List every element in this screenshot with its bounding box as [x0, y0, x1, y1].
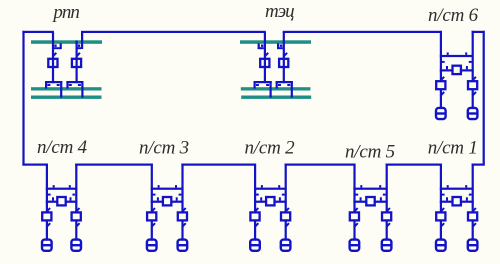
wire п/ст 5 right leg lower	[386, 220, 388, 240]
node substation п/ст 1	[0, 0, 1, 1]
п/ст 5 bridge lower tick right	[380, 197, 382, 200]
ТЭЦ feeder-1 fork right drop to bus 2	[270, 81, 272, 98]
п/ст 1 left leg disconnector blade lower	[440, 223, 444, 227]
п/ст 3 left feeder circuit breaker	[147, 212, 156, 220]
busbar РПП LV bus 2	[31, 96, 102, 99]
РПП feeder-1 fork bar	[45, 81, 62, 83]
wire п/ст 2 bridge lower tie right	[274, 201, 286, 203]
п/ст 6 right leg disconnector blade lower	[472, 92, 476, 96]
п/ст 4 left feeder circuit breaker	[42, 212, 51, 220]
wire ring bottom segment E (п/ст 5 to п/ст 1)	[386, 164, 442, 166]
п/ст 5 bus-tie circuit breaker	[366, 197, 374, 205]
wire п/ст 5 right leg upper	[386, 164, 388, 213]
wire ТЭЦ feeder-1 feeder column	[264, 32, 266, 83]
wire ring top segment C (ТЭЦ feeder 2 to п/ст 6)	[283, 31, 442, 33]
п/ст 3 left leg disconnector blade upper	[151, 208, 155, 212]
п/ст 3 bridge lower tick right	[176, 197, 178, 200]
svg-text:п/ст 5: п/ст 5	[345, 142, 395, 163]
п/ст 4 left leg disconnector blade upper	[46, 208, 50, 212]
п/ст 2 right leg disconnector blade upper	[285, 208, 289, 212]
wire п/ст 4 bridge upper tie	[46, 188, 77, 190]
svg-text:п/ст 3: п/ст 3	[139, 138, 189, 159]
svg-text:рпп: рпп	[51, 2, 79, 23]
node substation п/ст 5	[0, 0, 1, 1]
wire п/ст 3 left leg lower	[151, 220, 153, 240]
ТЭЦ feeder-1 fork bar	[254, 81, 272, 83]
РПП feeder-2 disconnector link	[77, 47, 82, 49]
wire п/ст 3 right leg upper	[181, 164, 183, 213]
РПП feeder-1 bus-2 disconnector tick	[57, 84, 60, 86]
wire п/ст 5 left leg upper	[353, 164, 355, 213]
transformer п/ст 2 T2	[281, 240, 291, 251]
п/ст 5 right feeder circuit breaker	[382, 212, 391, 220]
wire п/ст 2 right leg upper	[285, 164, 287, 213]
node substation п/ст 4	[0, 0, 1, 1]
п/ст 2 left leg disconnector blade lower	[255, 223, 259, 227]
п/ст 3 bus-tie circuit breaker	[163, 197, 171, 205]
ТЭЦ feeder-2 circuit breaker	[279, 59, 288, 67]
п/ст 6 right leg disconnector nub	[469, 61, 472, 63]
wire ring top segment D (п/ст 6 right leg to right edge)	[472, 31, 485, 33]
wire п/ст 4 left leg lower	[46, 220, 48, 240]
п/ст 4 right leg disconnector nub	[72, 194, 75, 196]
wire п/ст 6 bridge lower tie right	[461, 69, 474, 71]
п/ст 5 right leg disconnector blade upper	[386, 208, 390, 212]
busbar РПП LV bus 1	[31, 87, 102, 90]
РПП feeder-1 disconnector link	[54, 47, 62, 49]
РПП feeder-2 fork bar	[66, 81, 83, 83]
wire п/ст 1 right leg upper	[472, 164, 474, 213]
РПП feeder-2 fork right drop to bus 2	[81, 81, 83, 98]
node substation п/ст 2	[0, 0, 1, 1]
wire ring bottom segment D (п/ст 2 to п/ст 5)	[285, 164, 356, 166]
wire п/ст 4 left leg upper	[46, 164, 48, 213]
wire п/ст 1 bridge lower tie left	[440, 201, 453, 203]
wire ring top segment A (left edge to РПП feeder 1)	[22, 31, 54, 33]
п/ст 1 right feeder circuit breaker	[468, 212, 477, 220]
п/ст 3 bridge upper tick right	[175, 185, 177, 188]
wire п/ст 2 bridge lower tie left	[254, 201, 266, 203]
ТЭЦ feeder-1 disconnector blade dot	[261, 45, 263, 47]
node substation п/ст 6	[0, 0, 1, 1]
п/ст 1 left leg disconnector nub	[442, 194, 445, 196]
ТЭЦ feeder-1 busbar tap	[258, 43, 260, 49]
п/ст 2 left feeder circuit breaker	[250, 212, 259, 220]
п/ст 1 left leg disconnector blade upper	[440, 208, 444, 212]
ТЭЦ feeder-2 busbar tap	[277, 43, 279, 49]
п/ст 5 left leg disconnector blade upper	[354, 208, 358, 212]
wire п/ст 2 bridge upper tie	[254, 188, 287, 190]
ТЭЦ feeder-1 fork left drop to bus 1	[254, 81, 256, 89]
wire п/ст 2 left leg lower	[254, 220, 256, 240]
п/ст 3 right leg disconnector blade lower	[182, 223, 186, 227]
svg-text:п/ст 1: п/ст 1	[428, 138, 478, 159]
п/ст 6 right leg disconnector blade upper	[472, 77, 476, 81]
wire ring bottom segment F (п/ст 1 to right edge)	[472, 164, 485, 166]
wire п/ст 2 left leg upper	[254, 164, 256, 213]
п/ст 5 left leg disconnector nub	[355, 194, 358, 196]
п/ст 6 left leg disconnector blade upper	[440, 77, 444, 81]
wire п/ст 4 right leg lower	[75, 220, 77, 240]
wire п/ст 6 bridge lower tie left	[440, 69, 453, 71]
п/ст 4 right leg disconnector blade upper	[76, 208, 80, 212]
wire п/ст 4 bridge lower tie right	[66, 201, 78, 203]
node substation п/ст 3	[0, 0, 1, 1]
transformer п/ст 3 T2	[178, 240, 188, 251]
wire п/ст 4 bridge lower tie left	[46, 201, 58, 203]
wire п/ст 6 bridge upper tie	[440, 55, 474, 57]
svg-text:п/ст 4: п/ст 4	[37, 137, 88, 158]
п/ст 1 bridge upper tick left	[447, 185, 449, 188]
п/ст 5 bridge upper tick left	[360, 185, 362, 188]
п/ст 1 bridge lower tick right	[466, 197, 468, 200]
п/ст 6 left leg disconnector nub	[442, 61, 445, 63]
node РПП substation	[0, 0, 1, 1]
wire п/ст 6 left leg upper	[440, 31, 442, 82]
п/ст 5 bridge lower tick left	[360, 197, 362, 200]
busbar ТЭЦ HV bus	[240, 40, 311, 44]
ТЭЦ feeder-1 bus-2 disconnector tick	[266, 84, 269, 86]
п/ст 4 left leg disconnector nub	[48, 194, 51, 196]
wire п/ст 2 right leg lower	[285, 220, 287, 240]
ТЭЦ feeder-1 bus-1 disconnector tick	[256, 84, 259, 86]
п/ст 3 bridge upper tick left	[158, 185, 160, 188]
п/ст 2 right leg disconnector blade lower	[285, 223, 289, 227]
п/ст 3 left leg disconnector blade lower	[151, 223, 155, 227]
п/ст 1 bridge lower tick left	[446, 197, 448, 200]
wire ring bottom segment B (п/ст 4 to п/ст 3)	[75, 164, 153, 166]
п/ст 2 bus-tie circuit breaker	[266, 197, 274, 205]
wire ring bottom segment A (left edge to п/ст 4)	[22, 164, 47, 166]
svg-text:п/ст 2: п/ст 2	[245, 137, 296, 158]
п/ст 2 bridge lower tick left	[260, 197, 262, 200]
п/ст 1 right leg disconnector blade lower	[472, 223, 476, 227]
п/ст 2 left leg disconnector nub	[256, 194, 259, 196]
п/ст 3 left leg disconnector nub	[153, 194, 156, 196]
ТЭЦ feeder-1 disconnector link	[258, 47, 264, 49]
wire ring right edge	[483, 31, 485, 166]
wire п/ст 4 right leg upper	[75, 164, 77, 213]
РПП feeder-1 busbar tap	[60, 43, 62, 49]
п/ст 1 left feeder circuit breaker	[436, 212, 445, 220]
wire п/ст 5 bridge upper tie	[353, 188, 387, 190]
РПП feeder-2 disconnector blade dot	[78, 45, 80, 47]
п/ст 2 right feeder circuit breaker	[281, 212, 290, 220]
ТЭЦ feeder-2 disconnector blade	[284, 53, 288, 57]
п/ст 6 bus-tie circuit breaker	[453, 66, 461, 74]
п/ст 1 right leg disconnector blade upper	[472, 208, 476, 212]
transformer п/ст 5 T2	[382, 240, 392, 251]
РПП feeder-1 fork right drop to bus 2	[60, 81, 62, 98]
transformer п/ст 4 T2	[71, 240, 81, 251]
п/ст 2 bridge lower tick right	[279, 197, 281, 200]
п/ст 6 bridge upper tick left	[447, 52, 449, 55]
РПП feeder-2 bus-1 disconnector tick	[69, 84, 72, 86]
wire п/ст 1 bridge upper tie	[440, 188, 474, 190]
transformer п/ст 1 T1	[436, 240, 446, 251]
п/ст 6 left feeder circuit breaker	[436, 81, 445, 89]
wire п/ст 6 left leg lower	[440, 89, 442, 109]
п/ст 4 right leg disconnector blade lower	[76, 223, 80, 227]
wire п/ст 3 bridge lower tie right	[171, 201, 183, 203]
п/ст 6 bridge lower tick left	[446, 66, 448, 69]
РПП feeder-1 disconnector blade	[53, 53, 57, 57]
п/ст 3 right leg disconnector blade upper	[182, 208, 186, 212]
п/ст 3 right leg disconnector nub	[179, 194, 182, 196]
transformer п/ст 2 T1	[250, 240, 260, 251]
РПП feeder-2 bus-2 disconnector tick	[78, 84, 81, 86]
п/ст 2 bridge upper tick right	[278, 185, 280, 188]
РПП feeder-1 fork left drop to bus 1	[45, 81, 47, 89]
РПП feeder-1 circuit breaker	[48, 59, 57, 67]
п/ст 4 bus-tie circuit breaker	[57, 197, 65, 205]
wire п/ст 5 bridge lower tie right	[375, 201, 388, 203]
wire ring top segment B (РПП feeder 2 to ТЭЦ feeder 1)	[81, 31, 266, 33]
п/ст 1 bridge upper tick right	[465, 185, 467, 188]
п/ст 4 right feeder circuit breaker	[72, 212, 81, 220]
wire п/ст 3 bridge lower tie left	[151, 201, 163, 203]
transformer п/ст 6 T1	[436, 108, 446, 119]
wire п/ст 1 left leg upper	[440, 164, 442, 213]
wire п/ст 1 right leg lower	[472, 220, 474, 240]
п/ст 3 bridge lower tick left	[157, 197, 159, 200]
п/ст 6 right feeder circuit breaker	[468, 81, 477, 89]
ТЭЦ feeder-1 disconnector blade	[265, 53, 269, 57]
п/ст 5 right leg disconnector nub	[383, 194, 386, 196]
wire п/ст 6 right leg upper	[472, 31, 474, 82]
wire ТЭЦ feeder-2 feeder column	[283, 32, 285, 83]
РПП feeder-2 disconnector blade	[76, 53, 80, 57]
wire ring left edge	[22, 31, 24, 166]
ТЭЦ feeder-2 fork left drop to bus 1	[276, 81, 278, 89]
wire РПП feeder-1 feeder column	[52, 32, 54, 83]
wire РПП feeder-2 ring drop	[81, 32, 83, 49]
п/ст 6 bridge upper tick right	[465, 52, 467, 55]
п/ст 2 left leg disconnector blade upper	[255, 208, 259, 212]
РПП feeder-2 circuit breaker	[72, 59, 81, 67]
п/ст 5 left feeder circuit breaker	[350, 212, 359, 220]
wire РПП feeder-2 column	[76, 41, 78, 84]
РПП feeder-2 fork left drop to bus 1	[66, 81, 68, 89]
ТЭЦ feeder-2 bus-1 disconnector tick	[278, 84, 281, 86]
wire п/ст 3 left leg upper	[151, 164, 153, 213]
п/ст 2 bridge upper tick left	[261, 185, 263, 188]
wire п/ст 6 right leg lower	[472, 89, 474, 109]
ТЭЦ feeder-2 fork right drop to bus 2	[291, 81, 293, 98]
п/ст 1 bus-tie circuit breaker	[453, 197, 461, 205]
РПП feeder-1 bus-1 disconnector tick	[47, 84, 50, 86]
п/ст 4 bridge lower tick left	[52, 197, 54, 200]
transformer п/ст 1 T2	[468, 240, 478, 251]
п/ст 3 right feeder circuit breaker	[178, 212, 187, 220]
svg-text:п/ст 6: п/ст 6	[428, 5, 479, 26]
transformer п/ст 6 T2	[468, 108, 478, 119]
п/ст 4 bridge upper tick left	[53, 185, 55, 188]
п/ст 6 bridge lower tick right	[466, 66, 468, 69]
transformer п/ст 5 T1	[350, 240, 360, 251]
wire п/ст 1 bridge lower tie right	[461, 201, 474, 203]
РПП feeder-1 disconnector blade dot	[54, 45, 56, 47]
transformer п/ст 4 T1	[42, 240, 52, 251]
п/ст 1 right leg disconnector nub	[469, 194, 472, 196]
п/ст 6 left leg disconnector blade lower	[440, 92, 444, 96]
ТЭЦ feeder-1 circuit breaker	[260, 59, 269, 67]
п/ст 4 bridge lower tick right	[70, 197, 72, 200]
wire п/ст 5 bridge lower tie left	[353, 201, 366, 203]
wire п/ст 5 left leg lower	[353, 220, 355, 240]
ТЭЦ feeder-2 fork bar	[276, 81, 293, 83]
п/ст 2 right leg disconnector nub	[282, 194, 285, 196]
п/ст 5 right leg disconnector blade lower	[386, 223, 390, 227]
busbar РПП HV bus	[31, 40, 102, 44]
wire ring bottom segment C (п/ст 3 to п/ст 2)	[181, 164, 256, 166]
ТЭЦ feeder-2 disconnector link	[277, 47, 283, 49]
wire п/ст 1 left leg lower	[440, 220, 442, 240]
п/ст 5 bridge upper tick right	[379, 185, 381, 188]
п/ст 4 bridge upper tick right	[69, 185, 71, 188]
ТЭЦ feeder-2 bus-2 disconnector tick	[287, 84, 290, 86]
ТЭЦ feeder-2 disconnector blade dot	[280, 45, 282, 47]
п/ст 5 left leg disconnector blade lower	[354, 223, 358, 227]
wire п/ст 3 right leg lower	[181, 220, 183, 240]
busbar ТЭЦ LV bus 2	[241, 96, 311, 99]
п/ст 4 left leg disconnector blade lower	[46, 223, 50, 227]
transformer п/ст 3 T1	[147, 240, 157, 251]
node ТЭЦ power plant	[0, 0, 1, 1]
svg-text:тэц: тэц	[265, 1, 294, 22]
busbar ТЭЦ LV bus 1	[241, 87, 311, 90]
wire п/ст 3 bridge upper tie	[151, 188, 184, 190]
